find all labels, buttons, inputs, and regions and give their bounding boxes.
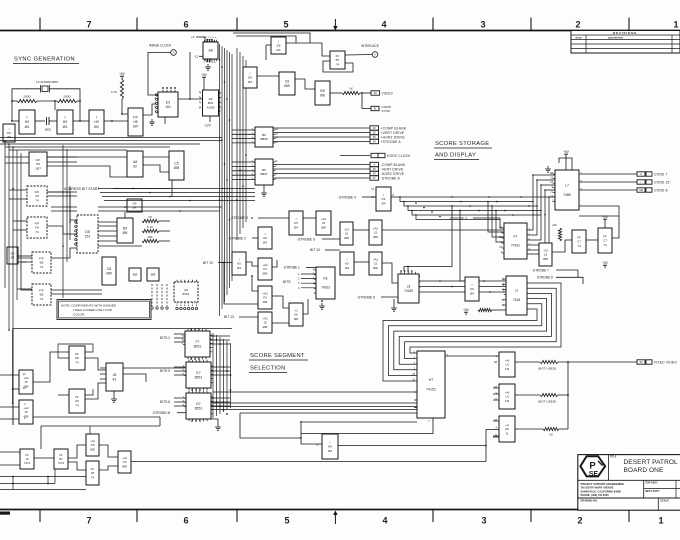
svg-text:7: 7 <box>86 20 91 30</box>
svg-text:K8: K8 <box>324 277 328 281</box>
revisions table <box>571 31 680 54</box>
bus mid-left dots <box>132 188 228 202</box>
svg-text:H9: H9 <box>63 120 68 124</box>
svg-text:ØØ: ØØ <box>106 272 112 276</box>
svg-text:74: 74 <box>75 403 79 407</box>
svg-text:A8: A8 <box>133 160 137 164</box>
svg-text:+5V: +5V <box>602 215 609 219</box>
svg-text:H9: H9 <box>25 120 30 124</box>
bus fan from K9 <box>398 197 549 220</box>
gate L6 a <box>499 352 515 377</box>
wire x301 vertical <box>301 422 322 444</box>
bits8 wires <box>174 398 186 406</box>
wire +5V to A9 <box>203 80 205 90</box>
svg-text:5.1K: 5.1K <box>147 225 153 229</box>
wire j5a out <box>33 352 69 382</box>
wire BIT 10 <box>218 262 232 264</box>
svg-text:ØØ: ØØ <box>321 225 326 229</box>
crystal Y1 <box>41 85 50 93</box>
heading AND DISPLAY <box>435 153 476 159</box>
svg-text:ØØ: ØØ <box>174 166 180 170</box>
L6b input stubs <box>493 388 499 400</box>
pin number speckle <box>23 91 583 437</box>
wire H8 to A8-92 <box>47 156 127 158</box>
svg-text:ØØ: ØØ <box>263 325 268 329</box>
A8 8551 top pins <box>177 280 197 282</box>
svg-text:+5: +5 <box>191 35 195 39</box>
wire H9 to H6 <box>338 445 486 447</box>
wire bus H7 a <box>213 391 417 393</box>
note box <box>57 300 151 320</box>
wire 568 vert <box>567 362 569 429</box>
svg-text:P: P <box>589 460 596 471</box>
svg-text:SYNC: SYNC <box>382 109 391 113</box>
svg-text:3: 3 <box>480 20 485 30</box>
inverter H9 a <box>19 110 35 134</box>
wire h8 left feeds2 <box>5 162 29 164</box>
gate K6 <box>289 303 303 326</box>
ic B9 08 <box>117 218 133 243</box>
svg-text:34: 34 <box>373 140 376 144</box>
svg-text:74: 74 <box>336 62 340 66</box>
svg-text:COLOR.: COLOR. <box>73 312 85 316</box>
svg-text:1Ø: 1Ø <box>550 172 553 175</box>
wire r2 out <box>159 230 170 232</box>
A8 hatch dots <box>204 41 215 61</box>
svg-text:750 SOUTH MARY AVENUE: 750 SOUTH MARY AVENUE <box>581 486 614 490</box>
svg-text:REVISIONS: REVISIONS <box>613 31 637 35</box>
wire A8-92 to C5 b <box>143 165 169 172</box>
wire B9 top feed <box>124 212 126 218</box>
svg-text:ØØ: ØØ <box>543 257 548 261</box>
wire H6 out <box>515 428 543 430</box>
svg-text:35: 35 <box>373 131 376 135</box>
E7 left pins <box>184 367 186 375</box>
wire D9 top in <box>266 44 271 46</box>
svg-text:-STROBE 7: -STROBE 7 <box>532 269 549 273</box>
wires K9 to J7 <box>479 281 506 292</box>
gate J5 bit13 <box>258 312 272 333</box>
inverter K9 mid <box>376 187 391 211</box>
net -STROBE 4 <box>338 196 356 200</box>
wire J8 to C5b <box>99 466 118 470</box>
wire strobe5 <box>381 296 398 298</box>
counter K7 74192 <box>504 223 527 259</box>
wire K9 out <box>391 196 398 198</box>
A9 right pins <box>219 93 221 111</box>
wire inv chain 4 <box>73 120 89 122</box>
wire drop to K9b <box>460 211 465 282</box>
svg-text:1K: 1K <box>549 433 553 437</box>
wire F6b out <box>272 260 277 267</box>
wire E9 bottom pins <box>164 117 166 124</box>
svg-text:SCORE STORAGE: SCORE STORAGE <box>435 141 489 147</box>
svg-text:Ø8: Ø8 <box>320 94 325 98</box>
svg-text:FIXED VIDEO: FIXED VIDEO <box>654 361 677 365</box>
svg-text:4: 4 <box>381 20 386 30</box>
svg-text:39: 39 <box>374 91 377 95</box>
svg-text:1Ø: 1Ø <box>505 399 510 403</box>
wire j5b in1 <box>0 406 19 408</box>
gate J5 score b <box>19 400 33 424</box>
wire bus D7 out2 <box>211 406 417 408</box>
wire bit13 <box>239 316 258 318</box>
wire left vertical runs <box>5 141 70 425</box>
svg-text:J7: J7 <box>515 289 519 293</box>
svg-text:DESERT PATROL: DESERT PATROL <box>624 459 679 466</box>
gate O2 L5 c <box>539 243 552 266</box>
ic B9 top <box>315 81 330 105</box>
buffer B5 8097 <box>255 159 273 185</box>
flip-flop F8 b <box>27 217 47 238</box>
wire bus to B6 pin 4 <box>232 142 255 144</box>
svg-text:Ø4: Ø4 <box>328 449 332 453</box>
svg-text:42: 42 <box>113 378 117 382</box>
connector -STROBE A <box>370 176 400 181</box>
ic C5 <box>169 151 184 180</box>
wire to COND 7 <box>579 173 637 175</box>
wire D7 drop <box>240 413 301 438</box>
wire H5b to J8 <box>85 383 106 399</box>
A8 pin dots <box>206 39 212 62</box>
svg-text:ØØ: ØØ <box>284 84 290 88</box>
svg-text:B9: B9 <box>123 226 127 230</box>
flip-flop F8 a <box>27 186 47 206</box>
wire 426 run <box>41 425 160 427</box>
svg-text:11: 11 <box>505 431 508 435</box>
svg-text:14.318180 MHZ: 14.318180 MHZ <box>36 80 58 84</box>
wire h8 left feeds <box>5 156 29 158</box>
svg-text:ØØ: ØØ <box>373 266 378 270</box>
ic A8 <box>203 42 218 59</box>
svg-text:K7: K7 <box>513 235 517 239</box>
svg-text:BIT 10: BIT 10 <box>203 261 213 265</box>
svg-text:Ø4: Ø4 <box>94 125 99 129</box>
wire inv chain 3 <box>49 120 57 122</box>
mux D8 151 <box>77 215 98 253</box>
svg-text:D8: D8 <box>85 230 90 234</box>
svg-text:92: 92 <box>133 165 137 169</box>
bus vertical secondary <box>237 48 246 240</box>
wire inv chain 1 <box>12 120 19 122</box>
wire J7 pullup <box>492 309 506 311</box>
F7 left pins <box>183 336 185 344</box>
wire video <box>360 92 371 94</box>
svg-text:F/F: F/F <box>133 116 138 120</box>
connector COND 8 <box>637 188 668 193</box>
wire L7 vcc branch <box>559 158 572 170</box>
junction drop K9b <box>459 210 461 212</box>
svg-text:6: 6 <box>183 516 188 526</box>
A8 8551 bottom circles <box>176 302 198 310</box>
wire H7 pin7 <box>301 418 433 434</box>
svg-text:8551: 8551 <box>195 376 203 380</box>
flip-flop H5 b <box>69 389 85 413</box>
wire strobe3 <box>473 217 500 219</box>
net -STROBE 9 <box>230 216 248 220</box>
junction bl <box>12 476 49 485</box>
wire j5a in2 <box>13 388 19 390</box>
svg-text:6: 6 <box>183 20 188 30</box>
svg-text:SE: SE <box>589 471 599 478</box>
wire -STROBE 9 <box>258 217 289 219</box>
inverter H9 c <box>89 110 104 134</box>
E9 top pins <box>163 90 175 92</box>
bits5 wires <box>174 367 186 375</box>
svg-text:-HORZ DRIVE: -HORZ DRIVE <box>381 172 405 176</box>
wires L8 to K9 <box>419 281 465 292</box>
svg-text:IN: IN <box>374 107 377 111</box>
wire to HORZ CLOCK <box>340 155 370 157</box>
wire E8 chain <box>21 262 32 290</box>
K7 feed dots <box>487 201 497 212</box>
flip-flop C7 a <box>572 230 586 253</box>
junction inv chain <box>111 120 113 122</box>
svg-text:L7: L7 <box>565 184 569 188</box>
wire J8 out2 <box>123 374 146 382</box>
wire C5 bottom drop <box>171 180 173 197</box>
svg-text:39: 39 <box>640 360 643 364</box>
svg-text:5: 5 <box>284 516 289 526</box>
svg-text:8551: 8551 <box>195 407 203 411</box>
net BITS 5 <box>160 369 170 373</box>
wire D9 mid out <box>257 75 279 77</box>
inverter K9 b <box>465 277 479 301</box>
wire strobe3 drop <box>500 218 504 228</box>
svg-text:1Ø: 1Ø <box>494 361 497 364</box>
svg-text:151: 151 <box>165 105 171 109</box>
inverter H9 b <box>57 110 73 134</box>
junction bit10 <box>223 262 225 264</box>
A9 pin numbers <box>199 93 223 110</box>
wire f8b left feeds <box>13 220 27 222</box>
wire bl 452 <box>0 451 20 453</box>
wire strobe1 to K8 <box>306 267 316 269</box>
inverter D9 top <box>271 37 286 54</box>
gate H6 <box>499 416 515 442</box>
underline 3 <box>434 159 479 161</box>
svg-text:74: 74 <box>75 360 79 364</box>
wires BITS to K8 <box>301 274 316 288</box>
buffer B6 8098 <box>255 127 273 147</box>
B6 left pins <box>253 130 255 143</box>
svg-text:-12: -12 <box>194 55 199 59</box>
svg-text:Ø4: Ø4 <box>263 240 267 244</box>
connector -VERT DRIVE <box>370 167 404 172</box>
ic option b <box>147 268 159 281</box>
ground E9 <box>149 119 155 125</box>
F7 top pins <box>188 329 206 331</box>
svg-text:E9: E9 <box>166 100 170 104</box>
svg-text:BIT 13: BIT 13 <box>224 315 234 319</box>
svg-text:3: 3 <box>481 516 486 526</box>
svg-text:74: 74 <box>577 244 581 248</box>
svg-text:C5: C5 <box>174 161 179 165</box>
wire crystal top loop left <box>12 89 41 121</box>
svg-text:I: I <box>96 116 97 120</box>
svg-text:J8: J8 <box>113 373 117 377</box>
wire address bit start <box>113 188 170 190</box>
wire K5c to L5b <box>354 261 369 263</box>
wire F8b to D8 <box>47 226 77 234</box>
wire strobe8 <box>556 277 583 284</box>
bus 8551 verticals <box>213 333 231 418</box>
wire top feed a <box>233 33 310 43</box>
bus 8551 dots <box>212 335 231 415</box>
wire D9 feed vert <box>265 45 267 60</box>
wire j5b out <box>33 416 160 418</box>
svg-text:-12V: -12V <box>204 124 212 128</box>
gate F6 a <box>258 258 272 280</box>
underline 4 <box>249 359 308 361</box>
wire J6 to B7 <box>34 457 54 459</box>
heading SYNC GENERATION <box>14 57 75 63</box>
connector +COMP BLANK <box>370 126 407 131</box>
bus vertical centre <box>220 44 233 316</box>
A8 top pins <box>205 40 217 42</box>
net -STROBE 7 <box>532 269 549 273</box>
net -STROBE 0 <box>152 411 171 415</box>
counter K8 74163 <box>316 267 335 299</box>
svg-text:Ø8: Ø8 <box>294 317 298 321</box>
svg-text:200Ω: 200Ω <box>23 95 31 99</box>
wire e8b left feeds <box>17 288 32 290</box>
resistor 5.1K <box>142 225 159 232</box>
wire inv chain 5 <box>104 120 128 122</box>
gate F6 b <box>258 286 272 309</box>
svg-text:1Ø: 1Ø <box>505 367 510 371</box>
svg-text:+5V: +5V <box>119 72 126 76</box>
wire L8 gnd <box>393 299 395 305</box>
wire E8a link <box>51 248 77 258</box>
junction E9 out <box>189 98 191 100</box>
gate A2 L5 b <box>369 252 382 275</box>
svg-text:A32Ø: A32Ø <box>207 105 216 109</box>
gate C5 b <box>118 451 131 473</box>
L7 left pins <box>553 174 555 202</box>
net BITS k8 <box>283 280 291 284</box>
svg-text:Ø4: Ø4 <box>276 48 280 52</box>
flip-flop J8 74 <box>86 461 99 485</box>
wire to -STROBE A <box>273 177 370 179</box>
net BIT 10 left <box>203 261 213 265</box>
D7 right pins <box>211 397 213 414</box>
inverter H9 bottom <box>322 434 338 459</box>
wire J8 out1 <box>123 367 185 369</box>
heading SELECTION <box>250 366 286 372</box>
wire strobe0 <box>177 412 186 414</box>
wire C7a in <box>552 240 572 252</box>
L8 top pins <box>401 272 415 274</box>
wire f8a left feeds <box>9 189 27 191</box>
net -STROBE 2 <box>228 237 246 241</box>
resistor 1K out <box>543 427 559 436</box>
svg-text:8551: 8551 <box>183 292 190 296</box>
crystal Y1 value 14.318180 MHZ <box>36 80 58 84</box>
wire B7 to C5a <box>68 445 86 458</box>
svg-text:(NOT USED): (NOT USED) <box>538 367 556 371</box>
resistor J7 pullup <box>478 308 492 311</box>
svg-text:-STROBE 4: -STROBE 4 <box>338 196 356 200</box>
wire vert x190 <box>189 52 191 99</box>
gate J5 score a <box>19 370 33 394</box>
E7 right pins <box>211 366 213 383</box>
svg-text:+5V: +5V <box>602 261 609 265</box>
svg-text:ØØ: ØØ <box>151 273 156 277</box>
J7 left pins <box>504 279 506 305</box>
svg-text:37: 37 <box>373 176 376 180</box>
decoder J7 7448 <box>506 276 527 315</box>
underline <box>13 63 79 65</box>
svg-text:(NOT USED): (NOT USED) <box>538 400 556 404</box>
svg-text:HORZ CLOCK: HORZ CLOCK <box>387 154 411 158</box>
inverter D9 d <box>127 199 142 212</box>
svg-text:SUNNYVALE, CALIFORNIA 94086: SUNNYVALE, CALIFORNIA 94086 <box>581 489 622 493</box>
node INTERLACE terminal <box>372 52 378 58</box>
wire e8a left feeds <box>17 255 32 257</box>
wire to fixed video <box>558 361 637 363</box>
resistor not used b <box>540 393 558 396</box>
wire -12 stub <box>199 55 203 57</box>
ground K8 <box>319 303 325 309</box>
bus L7-K7 verticals <box>527 175 555 250</box>
svg-text:1K: 1K <box>349 87 353 91</box>
wire L8 top stub <box>407 267 409 272</box>
wire strobe7 <box>556 269 578 271</box>
svg-text:ØØ: ØØ <box>344 236 349 240</box>
wire bl verticals <box>13 426 90 490</box>
wire H6 stub <box>493 436 499 438</box>
E9 input bubbles <box>156 94 158 113</box>
ground A8 <box>205 64 211 70</box>
svg-text:ØØ: ØØ <box>133 273 138 277</box>
node IMAGE CLOCK terminal <box>171 50 177 56</box>
inverter H9 mid <box>258 227 272 249</box>
svg-text:4.7K: 4.7K <box>111 90 117 94</box>
wire left col vertical <box>12 329 14 404</box>
svg-text:ØØ: ØØ <box>263 300 268 304</box>
K8 left pins <box>314 270 316 293</box>
wire K5a to J5a <box>303 217 316 219</box>
svg-text:74151: 74151 <box>426 388 436 392</box>
svg-text:STROBE 8: STROBE 8 <box>537 276 553 280</box>
wire to COND 8 <box>579 189 637 191</box>
wire C7b vcc <box>604 222 606 228</box>
power +5V L7 <box>563 150 570 157</box>
wire D8 to bus <box>98 206 222 208</box>
comparator L7 7485 <box>555 170 579 210</box>
wire strobe7 drop <box>577 270 579 277</box>
wire f8a left feeds2 <box>9 198 27 200</box>
wire H5 loop <box>58 344 93 395</box>
svg-text:Ø4: Ø4 <box>470 291 474 295</box>
wire bus D7 out4 <box>240 412 417 414</box>
power +5V pullup <box>119 72 126 79</box>
junction F6 <box>251 275 253 277</box>
svg-text:8Ø98: 8Ø98 <box>260 137 268 141</box>
power +5V C7b low <box>602 261 609 268</box>
wire L7 bottom loop <box>579 206 619 216</box>
wire osc rail <box>12 100 17 102</box>
gate O2 L5 a <box>340 222 353 245</box>
K8 gnd dot <box>321 300 323 302</box>
svg-text:151: 151 <box>85 235 91 239</box>
connector +STROBE A <box>370 139 401 144</box>
connector VIDEO <box>371 91 393 96</box>
svg-text:E7: E7 <box>196 371 200 375</box>
svg-text:+5V: +5V <box>563 150 570 154</box>
svg-text:Ø4: Ø4 <box>25 125 30 129</box>
